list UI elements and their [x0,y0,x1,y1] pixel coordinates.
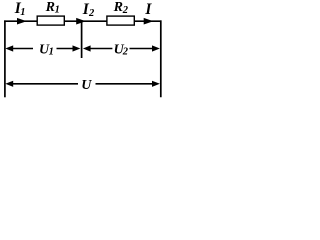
svg-text:U: U [81,78,92,93]
svg-text:2: 2 [122,47,129,58]
svg-text:1: 1 [20,7,25,18]
svg-text:R: R [113,0,123,15]
svg-text:2: 2 [88,8,95,19]
svg-text:2: 2 [122,5,129,16]
svg-text:1: 1 [49,47,54,58]
svg-text:I: I [144,1,152,18]
svg-text:1: 1 [55,5,60,16]
svg-text:R: R [45,0,55,15]
